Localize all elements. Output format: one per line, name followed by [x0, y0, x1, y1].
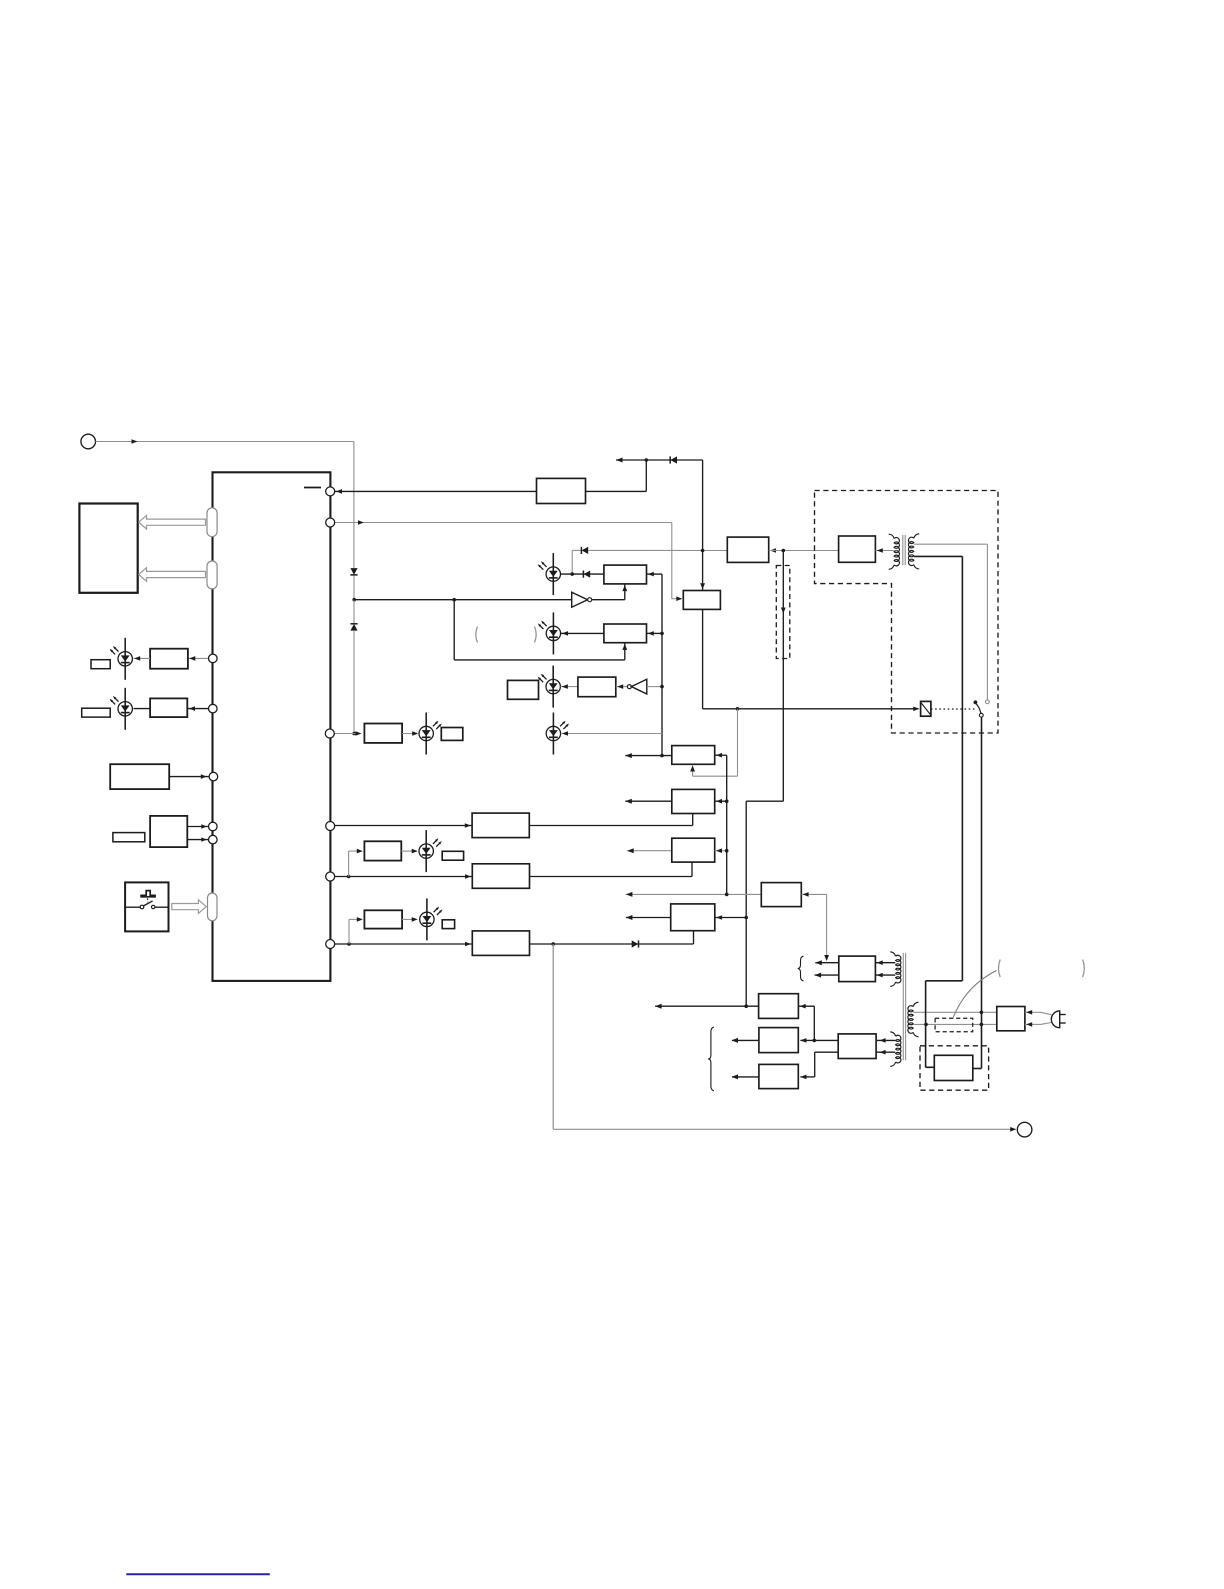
label box (LED-B) [442, 920, 454, 929]
T2 winding upper-left [890, 952, 895, 956]
wire pin2 control (gray) [335, 522, 672, 524]
block B8 (rectifier in PSU) [839, 536, 876, 562]
block C7 [759, 1028, 798, 1053]
wire R-block2 to LED2 [134, 708, 151, 710]
bus arrow to CN1 (lower) [139, 568, 206, 582]
wire B4 to LED3 (gray) [560, 686, 578, 688]
reset IC block [150, 816, 187, 847]
block F1 (AC switch) [934, 1055, 973, 1080]
label box (LED2) [82, 708, 111, 717]
pin node (U1 left, reset a) [209, 822, 218, 831]
wire T2-up row1 [815, 962, 839, 964]
LED D7 [552, 666, 554, 708]
riser to LED-B driver (gray) [348, 919, 350, 944]
LED D11 [426, 898, 428, 940]
block C8 [759, 1064, 798, 1088]
pin node (U1 right, VCC sense) [326, 487, 335, 496]
pin node (U1 right, ctrl out) [326, 518, 335, 527]
wire row y=1006.2 [655, 1005, 759, 1007]
diode D3 [669, 456, 671, 463]
wire pin to LED drive row [334, 733, 360, 735]
wire G1 out to B2 bottom [592, 599, 625, 601]
dashed box (AC unit) [920, 1046, 989, 1090]
block C5 (line filter) [761, 883, 801, 907]
wire node row y=944 [335, 943, 473, 945]
wire row y=801.2 [625, 800, 672, 802]
wire T2 mid to plug block upper (gray) [913, 1011, 997, 1013]
wire main rail x=702.6 [702, 460, 704, 591]
block M3 [472, 931, 529, 956]
wire pin1 to DC block [335, 490, 537, 492]
label box (LED3) [508, 680, 539, 699]
block C6 [759, 994, 799, 1019]
label box (LED1) [91, 660, 110, 669]
wire T1 sec lower (black) [914, 555, 963, 557]
switch S2 pivot [974, 700, 978, 704]
diode D1 (down) [350, 574, 357, 576]
switch contacts [125, 906, 140, 908]
terminal J1 (input) [81, 434, 96, 449]
block B11 (drive) [839, 956, 876, 982]
wire row y=755.6 [625, 755, 672, 757]
block B3 (driver) [604, 624, 647, 643]
block B9 (driver) [364, 841, 401, 860]
wire T2 mid to plug block lower (gray) [913, 1023, 997, 1025]
wire switch to lower right [981, 717, 983, 1068]
pin node (U1 right, M3 row) [326, 940, 335, 949]
wire bus x=662 [661, 574, 663, 756]
dashed box (power supply unit) [815, 491, 999, 734]
brace (sub power outputs) [708, 1027, 714, 1091]
T2 winding mid-right [913, 1002, 918, 1006]
block M2 [472, 864, 529, 889]
diode D12 [638, 940, 640, 947]
wire T2 lower to B12 row2 [838, 1051, 895, 1053]
pin node (U1 right, M2 row) [326, 872, 335, 881]
IC U1 (system control) [213, 472, 331, 981]
pin node (U1 left, LED2) [209, 704, 218, 713]
wire mains live drop x=783.3 [782, 551, 784, 802]
block G1 (noise filter) [997, 1007, 1025, 1031]
diode D5 [582, 571, 584, 578]
wire black rail to F box [926, 980, 963, 982]
LED DL1 [124, 638, 126, 680]
wire T1 primary to B8 [875, 550, 893, 552]
wire B3 to LED2 [561, 632, 604, 634]
wire row y=894.4 (gray) [626, 893, 761, 895]
pin capsule P1 on U1 [207, 508, 217, 537]
LED D10 [425, 830, 427, 872]
wire R-block to LED [134, 657, 151, 659]
wire B3 to bus [647, 632, 663, 634]
wire row y=917.5 [626, 917, 671, 919]
block B7 (driver) [364, 724, 402, 743]
resistor block R-L1 [150, 649, 188, 669]
T2 winding lower-left [890, 1032, 895, 1036]
pin tick (minus) inside U1 [304, 487, 321, 489]
small dashed box (AC inlet) [935, 1018, 973, 1032]
brace (T2 primary pair) [798, 956, 804, 981]
block B1 (DC/DC) [537, 478, 586, 503]
bus2 x=726.7 [726, 755, 728, 894]
transformer T2 core [902, 953, 904, 1060]
plug cords [1025, 1011, 1041, 1013]
wire J1 to vertical bus [96, 441, 354, 443]
parentheses label (LED2) [476, 627, 478, 643]
wire reset to U1 pin a [187, 826, 208, 828]
stub to LED1 row [571, 550, 573, 574]
label box (reset) [113, 833, 145, 842]
wire row y=850.7 (gray) [627, 850, 672, 852]
parentheses label (inlet) [999, 960, 1001, 978]
wire node row y=825.5 [335, 825, 472, 827]
block C2 [672, 789, 715, 813]
AC plug P1 [1051, 1011, 1059, 1028]
LED D9 (on bus line) [552, 713, 554, 755]
callout curve [953, 971, 996, 1018]
buffer G1 [572, 592, 588, 607]
wire to LED drive row [353, 631, 355, 734]
wire feed line y=460 [616, 459, 703, 461]
pin capsule P2 on U1 [207, 561, 217, 589]
wire AC sense (gray) y=550.5 [572, 549, 581, 551]
wire LED1 row [560, 573, 604, 575]
footer rule (blue) [126, 1573, 269, 1575]
wire node row y=876.5 [335, 876, 473, 878]
dotted link K1 to switch [931, 708, 976, 710]
dashed box (connector row) [776, 566, 790, 659]
transformer T1 [889, 534, 894, 538]
block arrow SW1 to U1 [172, 900, 206, 914]
pin node (U1 left, LED1) [209, 654, 218, 663]
LED D8 [425, 713, 427, 755]
crystal X1 block [110, 764, 169, 789]
wire U1 to R-block [189, 657, 209, 659]
pin node (U1 right, M1 row) [326, 822, 335, 831]
push button symbol [140, 891, 156, 896]
label box (LED4) [441, 728, 463, 741]
block B4 (driver) [578, 677, 616, 697]
connector CN1 (display) [79, 504, 137, 593]
wire B1 to corner [586, 490, 647, 492]
wire U1 to R-block 2 [187, 708, 208, 710]
open terminal of gray line [986, 700, 990, 704]
wire X1 to U1 [169, 776, 208, 778]
pin node (U1 left, reset b) [209, 835, 218, 844]
block B10 (driver) [364, 910, 402, 928]
wire relay branch down (gray) [737, 709, 739, 776]
relay K1 contact box [921, 701, 931, 716]
inverter G2 [616, 686, 628, 688]
riser to LED-A driver (gray) [348, 851, 350, 876]
pin capsule P3 on U1 [208, 893, 218, 921]
wire T2 lower to B12 row1 [838, 1039, 895, 1041]
pin node (U1 right, LED row) [325, 729, 334, 738]
block C1 [672, 746, 715, 765]
switch SW1 (power, momentary) [125, 882, 168, 931]
wire rail below B5 [702, 609, 704, 708]
block B5 (regulator) [683, 591, 720, 610]
wire vertical sense line x=354 [353, 442, 355, 569]
block C3 [672, 838, 715, 862]
block B12 (sub power) [838, 1034, 876, 1059]
diode D2 (up) [350, 623, 357, 625]
LED DL2 [124, 688, 126, 730]
block B6 (filter) [727, 537, 768, 562]
label box (LED-A) [442, 851, 463, 860]
wire B7 to LED [402, 733, 417, 735]
wire signal ground run [552, 944, 554, 1129]
block B2 (driver) [604, 565, 647, 584]
loop wire from y=599.7 down [452, 598, 456, 602]
block C4 [671, 904, 715, 931]
wire B2 to bus [647, 573, 663, 575]
LED D4 (power indicator) [552, 553, 554, 595]
pin node (U1 left, osc) [209, 772, 218, 781]
wire bus to LED D9 (gray) [562, 733, 662, 735]
terminal J2 (output) [1017, 1122, 1032, 1137]
bus arrow to CN1 (upper) [139, 515, 206, 529]
wire relay drive y=708.8 [703, 708, 919, 710]
wire y=599.7 [354, 599, 572, 601]
LED D6 [552, 612, 554, 654]
block M1 [472, 813, 529, 838]
wire T2-up row2 [815, 974, 839, 976]
wire T1 sec upper (gray) [914, 543, 988, 545]
node: junction at detect line [352, 598, 356, 602]
resistor block R-L2 [150, 698, 187, 717]
net B12 to C7 [800, 1039, 838, 1041]
wire reset to U1 pin b [187, 839, 208, 841]
net B12 to C8 [815, 1051, 839, 1053]
